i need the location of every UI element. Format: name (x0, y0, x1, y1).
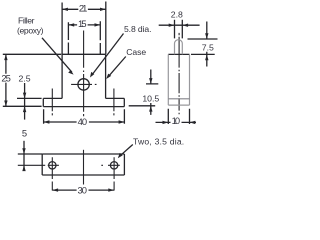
arrows dim 30 (52, 188, 58, 191)
svg-text:(epoxy): (epoxy) (17, 26, 44, 36)
arrows dim 5 outside (22, 148, 25, 154)
arrowhead 5.8 leader (90, 72, 94, 78)
arrows dim 10.5 outside (149, 78, 152, 84)
bottom view vertical center line (83, 150, 85, 185)
svg-text:2.5: 2.5 (19, 74, 31, 84)
side view case sides (168, 54, 189, 105)
dim 25 line (5, 54, 7, 106)
arrows dim 7.5 outside (205, 33, 208, 39)
svg-text:5: 5 (22, 128, 27, 139)
dim 10.5 line (150, 70, 152, 115)
side view center line (178, 33, 180, 114)
svg-text:5.8 dia.: 5.8 dia. (124, 24, 152, 34)
leader two 3.5 dia (120, 145, 133, 157)
svg-text:25: 25 (1, 73, 11, 84)
svg-text:Two, 3.5 dia.: Two, 3.5 dia. (133, 136, 184, 146)
leader case (108, 57, 126, 78)
bottom view horizontal center line (18, 164, 120, 166)
svg-text:30: 30 (77, 184, 87, 195)
horizontal center line of hole (71, 83, 96, 85)
svg-text:40: 40 (78, 116, 88, 127)
svg-text:15: 15 (78, 18, 87, 29)
dim 7.5 line (206, 22, 208, 67)
dim 21 extension lines (62, 2, 106, 55)
arrowhead two leader (118, 153, 123, 158)
dim 2.8 line (159, 24, 200, 26)
hole right crosshair (113, 157, 115, 190)
dim 21 line (62, 8, 106, 10)
bottom view rect (42, 154, 124, 175)
dim 2.5 ext top (17, 97, 42, 99)
arrows dim 15 (68, 23, 74, 26)
side view case bottom (168, 104, 189, 106)
hole left crosshair (51, 157, 53, 190)
dim 40 line (44, 121, 125, 123)
leader filler (42, 38, 72, 72)
dim 2.5 line (24, 83, 26, 120)
svg-text:10.5: 10.5 (142, 94, 159, 104)
hole left 3.5 dia (49, 162, 56, 169)
vertical center line front view (83, 31, 85, 117)
arrows dim 40 (44, 120, 50, 123)
arrows dim 2.8 outside (169, 24, 175, 27)
dim 10 line (156, 121, 197, 123)
dim 2.8 ext lines (175, 20, 183, 39)
dim 30 line (52, 189, 114, 191)
dim 15 line (68, 24, 100, 26)
dim 10.5 ext lines (129, 84, 159, 106)
side view case top edge (168, 53, 189, 55)
dim 25 extension lines (3, 54, 62, 106)
arrows dim 10 outside (163, 121, 169, 124)
flange front view (43, 98, 124, 106)
side view step line (168, 98, 189, 100)
arrowhead case leader (106, 74, 111, 79)
case body front view (62, 54, 106, 98)
dim 15 extension lines dashed (68, 21, 100, 54)
mounting hole center line right (113, 89, 115, 116)
side view body gray outline (168, 40, 189, 105)
dim 5 ext top (18, 153, 42, 155)
arrowhead filler leader (68, 70, 73, 75)
svg-text:10: 10 (172, 115, 181, 126)
svg-text:2.8: 2.8 (171, 9, 183, 19)
arrows dim 21 (62, 8, 68, 11)
dim 40 extension lines (44, 109, 125, 124)
side view tab (175, 40, 183, 55)
arrows dim 25 (4, 54, 7, 60)
mounting hole center line left (51, 89, 53, 116)
hole 5.8 dia circle (78, 79, 89, 90)
arrows dim 2.5 outside (23, 93, 26, 99)
svg-text:Case: Case (126, 47, 146, 57)
svg-text:21: 21 (79, 3, 88, 14)
svg-text:Filler: Filler (18, 16, 35, 26)
dim 7.5 ext lines (188, 39, 218, 54)
svg-text:7.5: 7.5 (202, 43, 214, 53)
leader 5.8 dia (92, 34, 124, 76)
dim 5 line (23, 141, 25, 171)
hole right 3.5 dia (110, 162, 117, 169)
dim 10 ext lines (168, 109, 189, 124)
